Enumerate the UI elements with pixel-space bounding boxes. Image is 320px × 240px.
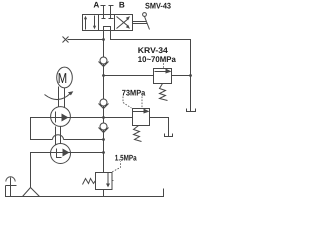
rotation arrow (45, 91, 74, 99)
wire KRV outlet (172, 75, 191, 77)
wire T-drain from valve T port to tank (111, 31, 191, 112)
wire plugged gauge line (68, 39, 104, 41)
air breather (6, 177, 17, 197)
svg-text:73MPa: 73MPa (122, 89, 146, 98)
tank T2 (under 73MPa valve) (165, 134, 173, 137)
leader dashed 73MPa left (123, 97, 132, 109)
node junction KRV outlet/drain (189, 74, 192, 77)
wire 73MPa outlet to tank (150, 118, 169, 137)
left cell down arrow (93, 16, 96, 30)
wire KRV inlet (104, 75, 154, 77)
wire suction to column (64, 139, 104, 141)
lever pivot circle (143, 13, 147, 17)
middle cell blocked port B (109, 15, 114, 19)
spring of KRV-34 (160, 84, 168, 101)
check valve CV3 (99, 123, 109, 133)
wire 73MPa inlet (104, 117, 133, 119)
node junction P/gauge (102, 38, 105, 41)
relief valve 1.5MPa body (96, 173, 115, 190)
right cell crossed arrow 2 (117, 17, 131, 29)
svg-text:10~70MPa: 10~70MPa (138, 55, 176, 64)
check valve CV2 (99, 99, 109, 109)
middle cell P-T bypass (104, 27, 111, 31)
wire bridge hop over shaft (53, 135, 64, 140)
check valve CV1 (99, 57, 109, 67)
spring of 1.5MPa valve (83, 179, 96, 185)
valve cell divider right (114, 15, 116, 31)
left cell up arrow (84, 16, 87, 30)
electric motor U1 circle (57, 67, 73, 88)
node junction pumpH suction (102, 138, 105, 141)
wire 1.5MPa outlet to tank line (103, 190, 105, 197)
svg-text:1.5MPa: 1.5MPa (115, 153, 137, 162)
relief valve KRV-34 body (154, 69, 172, 84)
wire pump L suction (31, 153, 51, 188)
node junction pumpH/73MPa (102, 116, 105, 119)
svg-text:A: A (93, 0, 99, 9)
relief valve 73MPa body (133, 109, 150, 126)
wire pump H suction (31, 118, 53, 140)
pump L circle (51, 144, 71, 164)
strainer S1 (23, 188, 40, 197)
lever link rods (133, 22, 148, 24)
svg-text:M: M (58, 71, 67, 87)
wire pump H outlet (71, 117, 104, 119)
shaft pump H to pump L (56, 127, 61, 145)
right cell crossed arrow 1 (117, 16, 131, 28)
lever arm (145, 17, 150, 30)
plug X symbol (63, 37, 69, 43)
tank T1 (drain tank under KRV-34) (187, 109, 196, 112)
directional valve SMV-43 envelope (83, 15, 133, 31)
svg-text:SMV-43: SMV-43 (145, 2, 171, 11)
leader dashed 73MPa right (141, 97, 143, 109)
valve cell divider left (98, 15, 100, 31)
reservoir tank line (6, 186, 164, 197)
pump H circle (51, 107, 71, 127)
port B stub (109, 6, 114, 15)
leader dashed 1.5MPa (112, 161, 120, 172)
wire pump L outlet (71, 152, 104, 154)
node junction pumpL outlet (102, 151, 105, 154)
svg-text:B: B (119, 0, 125, 9)
spring of 73MPa valve (134, 126, 142, 142)
wire P main column (103, 31, 105, 173)
shaft motor to pump H (59, 87, 65, 109)
middle cell blocked port A (102, 15, 106, 19)
node junction KRV branch (102, 74, 105, 77)
leader dashed KRV (163, 63, 165, 69)
port A stub (101, 6, 106, 15)
svg-text:KRV-34: KRV-34 (138, 46, 168, 55)
